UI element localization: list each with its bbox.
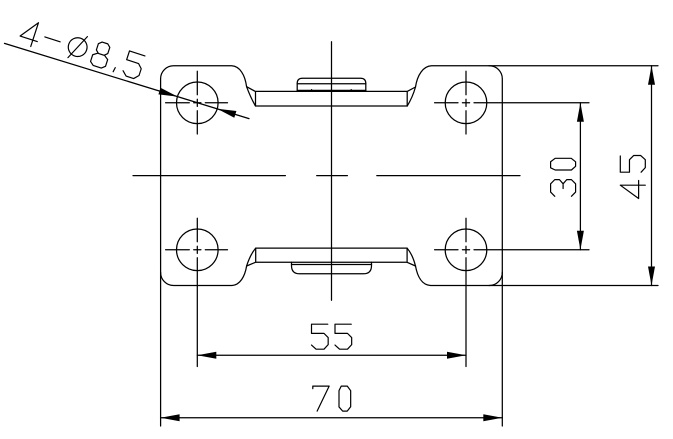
- bottom tab: [292, 262, 372, 274]
- centermark hole top-right with 30-dim extension: [435, 71, 589, 134]
- 45-dim arrow bottom: [648, 267, 655, 286]
- 70-dim arrow left: [161, 414, 180, 421]
- vertical centerline: [331, 42, 333, 301]
- top tab inner line: [297, 83, 366, 85]
- hole bottom-left: [177, 229, 219, 271]
- 30 text rotated: [551, 158, 576, 196]
- leader line 4-dia8.5: [5, 43, 250, 118]
- hole top-right: [445, 82, 487, 124]
- bottom stamped step edge: [247, 248, 416, 266]
- 55-dim arrow right: [447, 352, 466, 359]
- 45-dim extension lines: [489, 66, 658, 286]
- 55-dim arrow left: [197, 352, 216, 359]
- 55 text: [312, 324, 352, 349]
- 70-dim arrow right: [483, 414, 502, 421]
- bottom tab inner line: [292, 264, 372, 266]
- centermark hole top-left: [166, 71, 228, 134]
- top tab bottom line: [297, 89, 366, 91]
- horizontal centerline: [133, 175, 520, 177]
- 70-dim extension lines: [161, 272, 503, 426]
- 55-dim line: [197, 354, 466, 356]
- 30-dim line: [579, 103, 581, 250]
- plate outline: [161, 66, 503, 286]
- 45-dim line: [651, 66, 653, 286]
- leader arrow lower-right: [217, 109, 236, 118]
- 30-dim arrow top: [577, 103, 584, 122]
- 30-dim arrow bottom: [577, 231, 584, 250]
- top tab: [297, 78, 366, 91]
- 70 text: [313, 386, 351, 411]
- centermark hole bottom-right with 30-dim and 55-dim extensions: [435, 218, 589, 366]
- top dome edge nubs: [312, 90, 352, 91]
- centermark hole bottom-left with 55-dim extension: [166, 218, 228, 366]
- hole top-left: [177, 82, 219, 124]
- 45 text rotated: [620, 156, 645, 199]
- 45-dim arrow top: [648, 66, 655, 85]
- top stamped step edge: [247, 87, 416, 106]
- leader arrow upper-left: [158, 88, 177, 97]
- hole bottom-right: [445, 229, 487, 271]
- 70-dim line: [161, 417, 503, 419]
- 4-dia8.5 text rotated: [18, 17, 145, 81]
